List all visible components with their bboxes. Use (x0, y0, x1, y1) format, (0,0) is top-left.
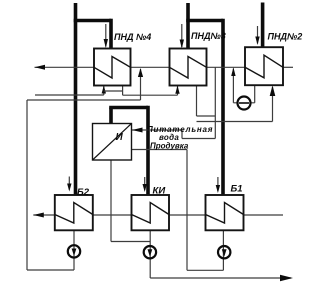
wire: blowdown line from evaporator (132, 149, 188, 151)
wire: KI bottom to pump and down (149, 230, 151, 278)
wire: small steam arrow at B1 top (217, 177, 219, 191)
wire: B1 pump line (222, 230, 224, 270)
wire: B2 pump discharge riser with arrow into condensate line (140, 69, 142, 100)
svg-text:Продувка: Продувка (150, 142, 189, 151)
wire: drain run PND4 to PND3 (123, 94, 178, 96)
heater PND2 (245, 47, 283, 85)
drain pump of PND2 (238, 97, 251, 110)
wire: left loop bottom (27, 269, 74, 271)
svg-text:Питательная: Питательная (147, 125, 213, 134)
wire: PND4 drain drop (122, 86, 124, 96)
wire: short link under PND4 (104, 90, 123, 92)
wire: feedwater jog (181, 130, 183, 139)
heater B2 (55, 195, 93, 230)
wire: thin steam arrow into PND2 top (257, 26, 259, 44)
wire: bottom condensate line left with arrow (33, 214, 55, 216)
wire: PND2 drain pump riser with arrow into condensate (232, 69, 234, 103)
heater PND3 (170, 49, 207, 86)
wire: PND3 drain drop (196, 86, 198, 117)
wire: small steam arrow at KI top (144, 177, 146, 190)
wire: pump suction/discharge horizontal (233, 102, 254, 104)
wire: feedwater lower segment (182, 138, 215, 140)
wire: thin steam arrow into PND3 top (181, 24, 183, 47)
wire: B2 pump line (73, 230, 75, 270)
wire: PND2 drain to pump (254, 85, 256, 103)
wire: thick branch from PND3 line (186, 19, 223, 23)
wire: condensate between B2 and KI (93, 214, 132, 216)
wire: evaporator outlet to KI pump (111, 241, 150, 243)
wire: arrow up into PND4 bottom (103, 86, 105, 95)
wire: evaporator top leg (109, 108, 113, 124)
svg-text:ПНД№3: ПНД№3 (191, 31, 226, 41)
wire: condensate between PND3 and PND2 (207, 66, 246, 68)
wire: long run from left riser (27, 99, 141, 101)
wire: thick drop into PND4 top (109, 19, 113, 49)
svg-text:Б1: Б1 (231, 184, 243, 195)
wire: bottom outlet run with right arrow (150, 277, 291, 279)
wire: thick drop to B1 top (221, 19, 225, 195)
wire: small steam arrow at B2 top (68, 177, 70, 190)
wire: condensate main line left with arrow (35, 66, 95, 68)
wire: feed line to PND4 bottom arrow (35, 94, 104, 96)
evaporator I (93, 124, 132, 161)
svg-text:КИ: КИ (153, 186, 166, 197)
heater PND4 (94, 49, 131, 86)
pump below B1 (218, 246, 230, 258)
wire: PND3 drain link (197, 115, 216, 117)
wire: condensate tap down (214, 67, 216, 138)
wire: steam line to PND3 (186, 3, 190, 49)
wire: thin steam arrow into PND4 top (105, 24, 107, 47)
wire: evaporator condensate outlet (110, 160, 112, 242)
wire: steam line to PND2 (261, 3, 265, 48)
heater B1 (206, 195, 244, 230)
svg-text:И: И (116, 132, 124, 143)
svg-text:Б2: Б2 (77, 187, 90, 198)
wire: left loop vertical (26, 100, 28, 270)
wire: long drain header (197, 121, 273, 123)
wire: arrow up into PND3 bottom (177, 86, 179, 95)
wire: main steam line to B2 (74, 3, 78, 195)
svg-text:ПНД №4: ПНД №4 (114, 32, 151, 42)
wire: feedwater line with arrow into evaporator (132, 129, 182, 131)
wire: condensate stub right of PND2 (283, 66, 293, 68)
wire: blowdown bottom run (187, 269, 223, 271)
wire: condensate between KI and B1 (169, 214, 206, 216)
wire: thick branch to PND4 (74, 19, 111, 23)
wire: evaporator to KI thick top run (109, 106, 148, 110)
wire: blowdown drop (186, 150, 188, 271)
pump below KI (144, 246, 156, 258)
wire: riser with arrow into PND2 bottom (272, 87, 274, 122)
wire: thick drop into KI top (146, 106, 150, 195)
wire: condensate between PND4 and PND3 (131, 66, 170, 68)
node: left arrowhead top row (35, 65, 46, 70)
pump below B2 (68, 245, 80, 257)
wire: condensate right of B1 (244, 214, 284, 216)
heater KI (132, 195, 170, 230)
svg-text:ПНД№2: ПНД№2 (268, 32, 303, 42)
